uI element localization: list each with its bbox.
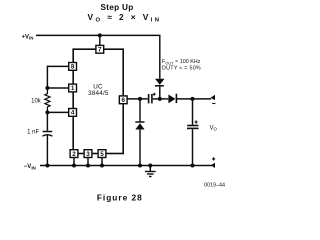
- svg-text:3844/5: 3844/5: [88, 90, 109, 97]
- diode D1 vertical from VIN rail: [159, 86, 161, 99]
- plus mark output terminal: [212, 157, 215, 160]
- node pin4: [45, 110, 49, 114]
- wire pin3 stub: [87, 158, 89, 166]
- resistor R1 10k: [45, 88, 50, 112]
- svg-text:7: 7: [98, 47, 102, 54]
- node B: [158, 97, 162, 101]
- svg-text:DUTY ≈ = 50%: DUTY ≈ = 50%: [162, 66, 201, 72]
- pin 4 box: [69, 109, 77, 117]
- wire pin2 stub: [73, 158, 75, 166]
- diode D1 triangle: [155, 79, 164, 85]
- wire D2 to output terminal: [177, 98, 211, 100]
- node C3 rail: [191, 164, 195, 168]
- node pin5 rail: [100, 164, 104, 168]
- svg-text:VO: VO: [210, 125, 218, 131]
- pin 5 box: [98, 150, 106, 158]
- wire output cap riser: [192, 99, 194, 125]
- minus mark output terminal: [212, 103, 215, 105]
- svg-text:10k: 10k: [31, 98, 42, 104]
- svg-text:5: 5: [100, 151, 104, 158]
- terminal output plus: [211, 163, 215, 168]
- wire C1 to ground rail: [46, 135, 48, 166]
- node D3 rail: [138, 164, 142, 168]
- node pin2 rail: [72, 164, 76, 168]
- node pins 8-1 divider: [45, 86, 49, 90]
- svg-text:3: 3: [86, 151, 90, 158]
- terminal output minus: [211, 95, 215, 101]
- svg-text:8: 8: [71, 64, 75, 71]
- op-amp U1 UC3844/5 body: [73, 49, 123, 153]
- svg-text:+VIN: +VIN: [22, 34, 34, 40]
- wire bottom rail: [40, 165, 212, 167]
- wire pin7 riser: [99, 35, 101, 45]
- svg-text:FOUT ≈ 100 KHz: FOUT ≈ 100 KHz: [162, 59, 201, 65]
- pin boxes: [69, 45, 127, 157]
- svg-text:6: 6: [121, 97, 125, 104]
- node C3 top: [191, 97, 195, 101]
- capacitor C2 charge pump: [148, 94, 150, 103]
- svg-text:Figure 28: Figure 28: [97, 192, 143, 202]
- wire +VIN top rail: [36, 35, 160, 78]
- pin 2 box: [70, 150, 78, 158]
- svg-text:2: 2: [72, 151, 76, 158]
- wire pin4: [47, 111, 68, 113]
- svg-text:Step Up: Step Up: [100, 3, 133, 12]
- svg-text:1: 1: [71, 85, 75, 92]
- node pin3 rail: [86, 164, 90, 168]
- capacitor C1 1nF: [43, 131, 53, 133]
- node junction top rail: [98, 33, 102, 37]
- diode D2 output bar: [175, 94, 177, 103]
- node A pin6: [138, 97, 142, 101]
- svg-text:0019–44: 0019–44: [204, 183, 225, 189]
- wire C2 to node B: [153, 98, 169, 100]
- svg-text:4: 4: [71, 110, 75, 117]
- plus mark C2: [153, 93, 156, 96]
- wire pin8 to divider: [47, 66, 68, 88]
- pin 1 box: [69, 84, 77, 92]
- svg-text:−VIN: −VIN: [24, 164, 36, 170]
- pin 8 box: [69, 63, 77, 71]
- pin 3 box: [84, 150, 92, 158]
- plus mark C3: [195, 120, 198, 123]
- wire C3 to bottom rail: [192, 129, 194, 165]
- wire pin1: [47, 87, 68, 89]
- ground: [149, 166, 151, 172]
- wire pin5 stub: [101, 158, 103, 166]
- pin 7 box: [96, 45, 104, 53]
- wire to C1: [46, 112, 48, 130]
- node C1 rail: [45, 164, 49, 168]
- capacitor C3 output: [187, 125, 198, 127]
- node ground rail: [148, 164, 152, 168]
- diode D3 clamp wire: [139, 99, 141, 122]
- wire pin6 output row: [127, 98, 148, 100]
- diode D2 triangle: [168, 95, 175, 104]
- svg-text:1 nF: 1 nF: [27, 129, 39, 135]
- diode D3 triangle: [135, 123, 144, 129]
- pin 6 box: [119, 96, 127, 104]
